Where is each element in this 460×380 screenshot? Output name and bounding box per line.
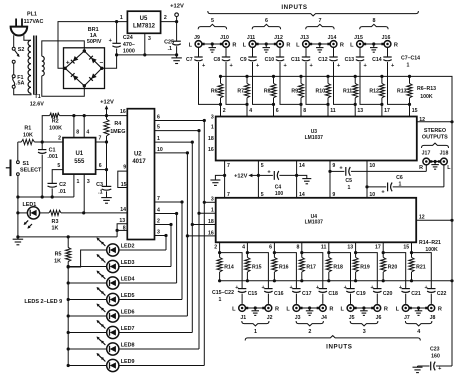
jack J7 [396,305,412,321]
ground (mid-left) [210,175,224,185]
svg-text:R21: R21 [416,265,426,271]
svg-text:LED4: LED4 [121,276,135,282]
wire select bus vertical x166.0 [165,236,167,251]
svg-text:5: 5 [57,163,60,169]
resistor R8 [264,76,276,104]
wire U3 pin 15 stub [409,104,411,116]
svg-text:10: 10 [369,192,375,198]
wire C5 to J17 [425,165,427,171]
node U4 pin 4 input [246,251,249,254]
svg-text:6: 6 [157,115,160,121]
node C24 / ground rail junction [115,53,118,56]
svg-text:1: 1 [219,297,222,303]
capacitor C11 [291,48,314,69]
svg-text:U2: U2 [134,151,142,157]
node U4 pin 15 input [410,251,413,254]
wire U4 pin 8 stub [301,242,303,252]
bridge rectifier BR1 [64,27,105,89]
node LED line x176.6 [175,212,178,215]
wire U3 pin 8 stub [300,104,302,116]
wire LED3 cathode stub [68,266,107,268]
ground (input pair 4) [415,308,423,315]
node R17 bottom (bias rail) [300,279,303,282]
resistor R2 [49,113,62,132]
svg-text:4: 4 [242,245,245,251]
wire U3 pin 9 to U4 pin 9 [329,161,331,198]
selector IC U3 [216,117,417,161]
node bus LED5 [67,298,70,301]
svg-text:C4: C4 [275,185,282,191]
wire power ground rail [117,54,177,56]
node R6 top (bias rail) [219,75,222,78]
svg-text:L: L [243,42,247,48]
svg-text:2: 2 [223,108,226,114]
capacitor C2 [48,182,67,197]
wire U3 pin 10 to U4 pin 10 [366,161,368,198]
svg-text:L: L [189,42,193,48]
wire R3 to U2 pin 14 (clock) [61,212,127,214]
svg-text:C2: C2 [59,182,66,188]
svg-text:3: 3 [87,179,90,185]
switch S1 SELECT [6,160,42,177]
ground (power supply) [171,55,182,64]
svg-text:J8: J8 [430,315,436,321]
svg-text:LM1037: LM1037 [305,220,324,226]
wire U4 pin 2 stub [219,242,221,252]
svg-text:5: 5 [211,18,214,24]
selector IC U4 [216,198,417,243]
counter U2 [127,109,154,240]
LED7 emission arrows [97,320,106,329]
LED9 emission arrows [97,353,106,362]
wire U4 pin 4 to J2 [247,253,268,289]
jack J1 [232,305,248,321]
wire U2 pin 7 to LED line [155,201,183,203]
wire jack sleeve pair 2 [302,307,317,309]
svg-text:C15–C22: C15–C22 [212,290,234,296]
svg-text:LED5: LED5 [121,293,135,299]
wire ground line y197 [18,196,74,198]
LED8 emission arrows [97,337,106,346]
svg-text:R10: R10 [315,89,325,95]
resistor R5 [54,237,71,267]
node U4 pin12 bias junction [450,219,453,222]
svg-text:R: R [394,42,398,48]
svg-text:C15: C15 [248,291,258,297]
svg-text:100K: 100K [425,247,438,253]
wire U3 pin 13 stub [354,104,356,116]
resistor R21 [409,253,426,281]
node S1 line / y197 junction [16,195,19,198]
svg-text:R: R [275,306,279,312]
brace input group 1 [242,321,269,326]
svg-text:BR1: BR1 [88,27,99,33]
svg-text:R17: R17 [306,265,316,271]
svg-text:J2: J2 [267,315,273,321]
svg-text:J14: J14 [328,35,337,41]
svg-text:−: − [100,60,104,67]
node 555 pin8 rail junction [72,114,75,117]
wire input bias rail (bottom) [220,280,452,282]
capacitor C24 [109,22,135,55]
LED LED2 [107,244,119,256]
jack J6 [371,305,388,321]
brace inputs bottom [245,336,420,341]
wire U2 pin 9 to pin 15 (reset loop) [118,171,128,187]
wire select bus vertical x176.6 [176,214,178,284]
svg-text:+12V: +12V [234,174,247,180]
wire jack sleeve pair 3 [356,307,372,309]
wire 555 pin 3 to clock line [83,174,85,213]
svg-text:LM7812: LM7812 [133,24,156,30]
node U4 pin 6 input [273,251,276,254]
wire LED7 cathode stub [68,332,107,334]
svg-text:.1: .1 [168,46,173,52]
svg-text:C17: C17 [302,291,312,297]
capacitor C15 [235,285,257,304]
diode D1 (bridge top-left) [71,56,78,63]
wire R1 junction to U1 pin 2 [42,141,63,143]
LED5 emission arrows [97,287,106,296]
wire U4 pin 13 to J6 [356,253,378,289]
svg-text:C23: C23 [430,346,440,352]
svg-text:STEREO: STEREO [424,128,446,134]
ground (main left) [13,237,24,245]
jack J8 [425,305,442,321]
svg-text:C11: C11 [291,57,300,63]
wire jack sleeve pair 4 [411,307,425,309]
svg-text:R: R [438,306,442,312]
svg-text:J11: J11 [247,35,255,41]
ground (input pair 7) [316,44,324,52]
ground (pin 14) [297,175,312,183]
LED6 emission arrows [97,304,106,313]
svg-text:17: 17 [375,245,381,251]
transformer T1 [28,36,44,108]
svg-text:1: 1 [399,181,402,187]
svg-text:2: 2 [214,245,217,251]
node bus LED7 [67,331,70,334]
svg-text:R: R [419,165,423,171]
brace input group 7 [306,24,334,29]
svg-text:6: 6 [265,18,268,24]
svg-text:7: 7 [319,18,322,24]
capacitor C25 [164,22,181,55]
jack J3 [286,305,302,321]
resistor R14 [217,253,234,281]
wire U3 pin 4 stub [246,104,248,116]
svg-text:1: 1 [120,15,123,21]
node S1 vertical ground junction [16,235,19,238]
node R11 top (bias rail) [354,75,357,78]
svg-text:LED3: LED3 [121,260,135,266]
jack J10 [220,35,237,48]
wire select bus vertical x192.3 [191,142,193,332]
wire select bus vertical x171.0 [170,225,172,267]
brace inputs top [208,11,419,16]
wire jack sleeve pair 6 [258,43,274,45]
svg-text:1: 1 [211,208,214,214]
node sleeve ground 7 [318,42,321,45]
node select line x192.3 [191,141,194,144]
capacitor C21 [399,285,421,304]
jack J15 [350,35,366,48]
svg-text:10: 10 [369,163,375,169]
svg-text:R3: R3 [52,219,59,225]
svg-text:R5: R5 [55,251,62,257]
svg-text:8: 8 [297,245,300,251]
svg-text:C9: C9 [240,57,247,63]
svg-text:1K: 1K [54,259,61,265]
svg-text:R19: R19 [360,265,370,271]
jack J13 [296,35,312,48]
node U3 pin 17 input [380,103,383,106]
wire 555 pin 5 to C2 [52,170,63,184]
jack J5 [340,305,356,321]
node R10 top (bias rail) [326,75,329,78]
wire jack sleeve pair 7 [312,43,328,45]
svg-text:C12: C12 [318,57,328,63]
svg-text:+: + [66,60,70,67]
svg-text:L: L [232,306,236,312]
svg-text:C24: C24 [123,35,133,41]
svg-text:5: 5 [261,192,264,198]
capacitor C14 [372,48,395,69]
resistor R20 [381,253,398,281]
svg-text:C1: C1 [49,147,56,153]
svg-text:C22: C22 [437,291,447,297]
node U3 pin 2 input [219,103,222,106]
jack J11 [243,35,259,48]
wire J14 signal to U3 pin 13 [334,62,356,104]
svg-text:J6: J6 [376,315,382,321]
wire J16 signal to U3 pin 15 [388,62,410,104]
svg-text:LM1037: LM1037 [305,135,324,141]
capacitor C22 [424,285,446,304]
node R21 bottom (bias rail) [410,279,413,282]
svg-text:C6: C6 [396,175,403,181]
svg-text:17: 17 [384,108,390,114]
wire U2 pin 1 to U3/U4 select line [155,141,193,143]
node pin7 / R4 junction [105,140,108,143]
wire LED6 cathode stub [68,315,107,317]
node U3 pin14 junction [295,174,298,177]
wire C6 to J18 [443,165,445,187]
resistor R17 [299,253,316,281]
svg-text:C10: C10 [265,57,275,63]
svg-text:117VAC: 117VAC [24,19,44,25]
resistor R4 [104,116,126,142]
svg-text:L: L [340,306,344,312]
terminal +12V output [170,3,184,21]
capacitor C16 [262,285,284,304]
node LED line x182.0 [180,200,183,203]
capacitor C1 [38,142,58,197]
wire select bus vertical x182.0 [181,202,183,300]
node U5 pin1 / C24 junction [115,20,118,23]
wire plug left lead to S2 [13,35,15,47]
ground (outputs) [431,162,439,170]
svg-text:J9: J9 [194,35,200,41]
svg-text:13: 13 [347,245,353,251]
node U3 pin10 junction [365,185,368,188]
node bus LED6 [67,314,70,317]
diode D3 (bridge bottom-left) [71,73,78,80]
svg-text:J17: J17 [422,151,431,157]
svg-text:4: 4 [417,329,420,335]
node C2 ground junction [51,195,54,198]
svg-text:100: 100 [275,191,284,197]
svg-text:2: 2 [58,135,61,141]
wire U3 pin 5 to U4 pin 5 [257,161,259,198]
svg-text:3: 3 [157,230,160,236]
node sleeve ground 1 [254,306,257,309]
svg-text:4: 4 [157,208,160,214]
node U3 pin 8 input [299,103,302,106]
fuse F1 [12,75,24,89]
node R15 bottom (bias rail) [246,279,249,282]
wire U4 pin 2 to J1 [220,253,243,289]
node bus LED8 [67,347,70,350]
LED LED7 [107,326,119,338]
plug PL1 [11,12,44,36]
wire U3 pin 12 to bias line [417,121,452,123]
wire 555 pin 1 to ground line [73,174,75,197]
node 555 pin3 / clock junction [82,211,85,214]
wire LED4 cathode stub [68,282,107,284]
wire U4 pin 17 stub [382,242,384,252]
wire bias line right edge [451,122,453,366]
node R8 top (bias rail) [272,75,275,78]
wire 555 pin 8 to rail [73,116,75,138]
node output ground [434,160,437,163]
wire J10 signal to U3 pin 4 [226,62,247,104]
wire U3 pin 2 stub [220,104,222,116]
diode D2 (bridge top-right) [89,56,96,63]
svg-text:INPUTS: INPUTS [281,4,307,11]
ground (input pair 5) [209,44,217,52]
LED LED1 [27,207,39,219]
svg-text:L: L [350,42,354,48]
LED3 emission arrows [97,254,106,263]
wire U2 pin 3 to LED line [155,235,167,237]
node U3 pin 13 input [354,103,357,106]
svg-text:10: 10 [157,147,163,153]
node U4 pin 11 input [327,251,330,254]
svg-text:+12V: +12V [100,99,114,105]
node bridge top vertex [83,49,86,52]
svg-text:S1: S1 [23,161,30,167]
node C25 ground junction [175,53,178,56]
wire J9 signal to U3 pin 2 [199,62,221,104]
svg-text:+12V: +12V [170,3,184,9]
svg-text:1: 1 [348,185,351,191]
jack J9 [189,35,205,48]
wire LED9 cathode stub [68,365,107,367]
svg-text:8: 8 [373,18,376,24]
jack J17 [419,151,432,171]
jack J14 [327,35,344,48]
svg-text:R20: R20 [388,265,398,271]
svg-text:R15: R15 [252,265,262,271]
wire U3 pin 14 to U4 pin 14 [296,161,298,198]
svg-text:470–: 470– [123,42,135,48]
wire select bus vertical x187.4 [186,153,188,316]
svg-text:J15: J15 [354,35,363,41]
wire input bias rail (top) [221,76,453,121]
node select line x199.0 [197,129,200,132]
resistor R1 [18,126,42,145]
svg-text:13: 13 [119,218,125,224]
wire U2 pins 13 and 8 to ground [117,224,127,237]
ground (C23) [413,366,423,373]
svg-text:LED7: LED7 [121,326,135,332]
svg-text:C5: C5 [345,178,352,184]
wire U4 pin 13 stub [355,242,357,252]
wire 555 pin 6 [96,169,107,171]
svg-text:R6: R6 [211,89,218,95]
wire U3 pin 6 stub [273,104,275,116]
node U4 pin 1 junction [197,212,200,215]
svg-text:J18: J18 [440,151,449,157]
wire U4 pin 17 to J7 [383,253,406,289]
svg-text:L: L [396,306,400,312]
svg-text:6: 6 [276,108,279,114]
svg-text:C8: C8 [214,57,221,63]
wire LED1 to R3 [40,212,49,214]
node R14 bottom (bias rail) [218,279,221,282]
label +12V feed arrow (pin 5) [234,174,258,180]
wire secondary bottom to bridge AC input [42,76,85,96]
node bias rail right [450,279,453,282]
svg-text:3: 3 [148,36,151,42]
svg-text:10K: 10K [23,133,33,139]
wire J15 signal to U3 pin 17 [360,62,382,104]
svg-text:R: R [232,42,236,48]
node R1 / C1 / pin2 junction [41,140,44,143]
svg-text:5: 5 [261,163,264,169]
wire bridge - output to ground rail [102,49,117,69]
resistor R18 [326,253,343,281]
LED LED4 [107,277,119,289]
node U5 pin2 / C25 junction [175,20,178,23]
wire output sleeve [432,161,438,163]
wire S1 to ground line [17,176,19,237]
svg-text:9: 9 [123,165,126,171]
wire U2 pin 10 to U3/U4 select line [155,152,188,154]
svg-text:12: 12 [419,117,425,123]
svg-text:2: 2 [157,219,160,225]
wire plug right lead to primary top [24,35,31,40]
svg-text:R2: R2 [52,119,59,125]
LED LED9 [107,359,119,371]
wire U2 pin 4 to LED line [155,213,177,215]
svg-text:R11: R11 [343,89,352,95]
svg-text:PL1: PL1 [27,12,37,18]
node U3 pin9 junction [328,170,331,173]
wire U4 pin 3 (left) [204,201,215,203]
node bridge bottom vertex [83,84,86,87]
capacitor C13 [345,48,368,69]
svg-text:11: 11 [321,245,327,251]
wire select bus vertical x199.0 [198,131,200,349]
svg-text:160: 160 [431,353,440,359]
ground (C3) [101,197,112,199]
brace input group 4 [405,321,432,326]
svg-text:LED2: LED2 [121,243,135,249]
svg-text:7: 7 [227,163,230,169]
brace input group 2 [296,321,323,326]
